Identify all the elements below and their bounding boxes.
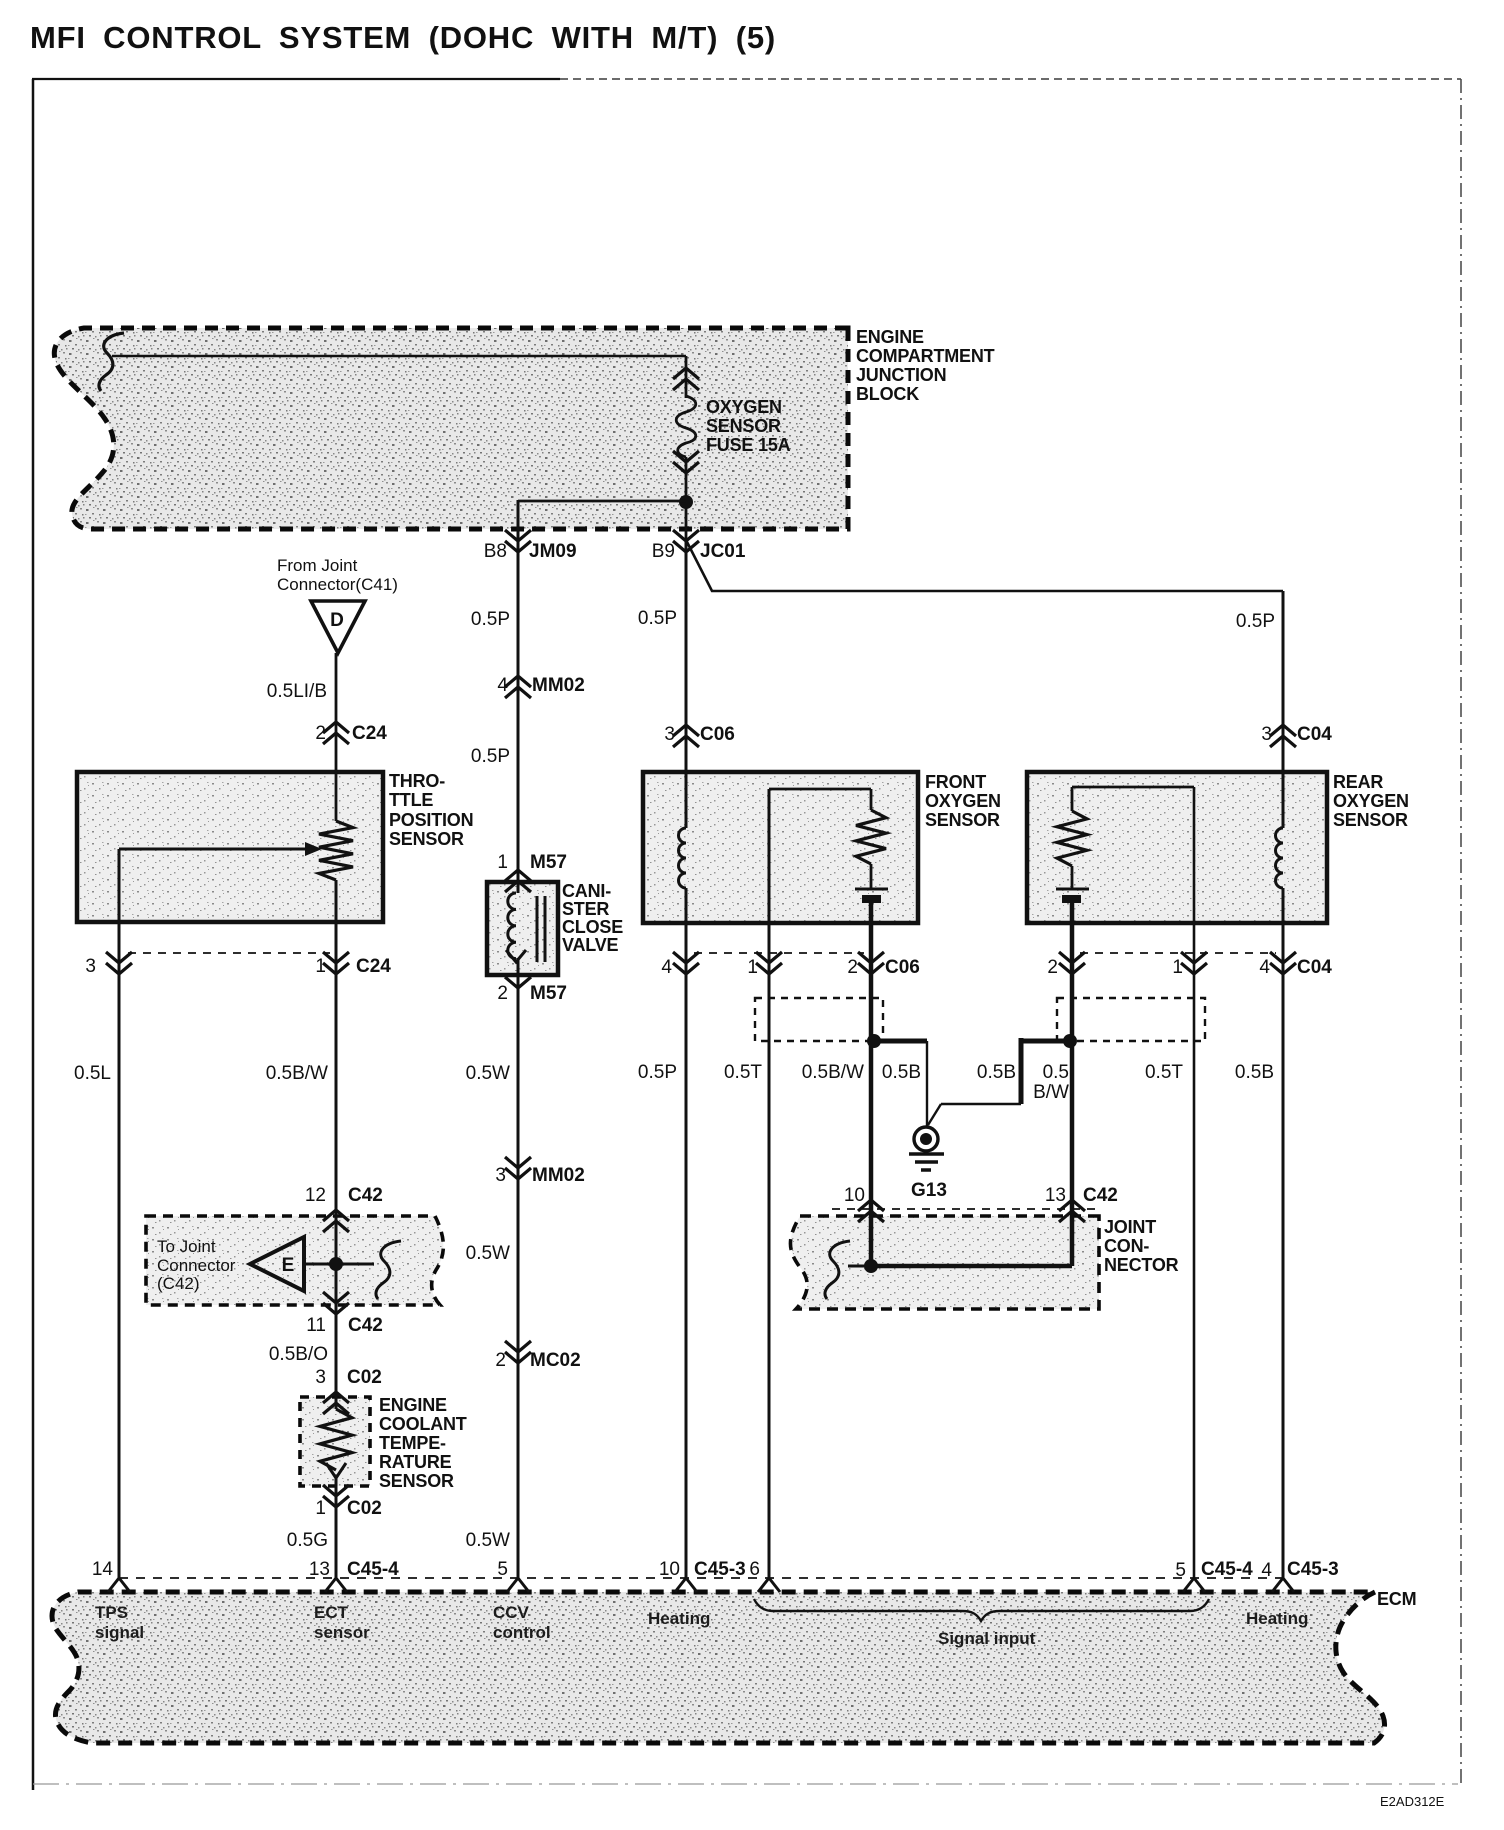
svg-text:2: 2 [497,983,508,1004]
svg-text:0.5G: 0.5G [287,1530,328,1551]
potentiometer resistor in TPS [319,821,353,880]
svg-text:0.5B/W: 0.5B/W [802,1062,864,1083]
wire 0.5B/W front O2 pin 2 to joint connector pin 10 [869,903,874,1266]
ECM label Heating left [648,1609,710,1628]
wire from fuse node to B8 [518,500,686,503]
wire label 0.5W (lower) [466,1243,510,1264]
front oxygen sensor box [643,772,918,923]
wire E to junction and through dashed box [304,1257,374,1271]
svg-text:C24: C24 [352,723,387,744]
svg-text:5: 5 [497,1559,508,1580]
joint connector internal bus [864,1259,1072,1273]
wire label 0.5W [466,1063,510,1084]
wire 0.5B rear O2 heater to ECM pin 4 [1282,888,1285,1578]
svg-text:C42: C42 [348,1315,383,1336]
svg-text:From Joint: From Joint [277,556,358,575]
svg-text:COMPARTMENT: COMPARTMENT [856,346,995,366]
label ENGINE COMPARTMENT JUNCTION BLOCK [856,327,995,404]
torn wire squiggle right of E junction [376,1241,401,1299]
svg-text:C45-3: C45-3 [1287,1559,1339,1580]
svg-text:ECT: ECT [314,1603,349,1622]
ECM label TPS signal [95,1603,144,1642]
canister valve plates [537,896,545,962]
wire label 0.5 B/W (rear O2) [1033,1062,1069,1103]
svg-text:0.5T: 0.5T [1145,1062,1183,1083]
svg-text:CON-: CON- [1104,1236,1149,1256]
wire label 0.5B/W (left) [266,1063,328,1084]
svg-text:FUSE 15A: FUSE 15A [706,435,791,455]
connector C42 pin 11 [306,1292,383,1336]
wire 0.5L TPS pin 3 to ECM pin 14 [118,922,121,1578]
svg-text:signal: signal [95,1623,144,1642]
svg-text:JM09: JM09 [529,541,577,562]
svg-text:B8: B8 [484,541,507,562]
svg-text:C45-3: C45-3 [694,1559,746,1580]
svg-text:STER: STER [562,899,609,919]
svg-text:0.5W: 0.5W [466,1530,510,1551]
svg-text:THRO-: THRO- [389,771,445,791]
svg-text:SENSOR: SENSOR [379,1471,454,1491]
signal input brace [754,1599,1209,1621]
connector C02 pin 3 [315,1367,381,1414]
wire 0.5P B9 JC01 down to front O2 and ECM pin 10 [685,540,688,1578]
wire label 0.5B (right ground branch) [977,1062,1016,1083]
connector C06 pin 2 [847,952,919,978]
svg-text:0.5B: 0.5B [977,1062,1016,1083]
ECM label CCV control [493,1603,551,1642]
svg-text:5: 5 [1175,1560,1186,1581]
svg-text:2: 2 [315,723,326,744]
document code [1380,1794,1445,1809]
connector C02 pin 1 [315,1485,381,1519]
ECM pin 5 (CCV control) [497,1559,529,1592]
label From Joint Connector(C41) [277,556,398,594]
svg-text:C02: C02 [347,1367,382,1388]
svg-text:ENGINE: ENGINE [856,327,924,347]
connector B8 JM09 [484,530,577,562]
wire branch JC01 to rear oxygen sensor [686,540,1283,828]
svg-text:2: 2 [495,1350,506,1371]
svg-text:C42: C42 [348,1185,383,1206]
front O2 heater coil [679,828,686,888]
svg-text:B/W: B/W [1033,1082,1069,1103]
ECM pin 10 C45-3 (heating) [659,1559,746,1592]
svg-text:0.5B/W: 0.5B/W [266,1063,328,1084]
svg-text:0.5P: 0.5P [471,746,510,767]
ECM connector dashed row [119,1577,1284,1579]
svg-text:MM02: MM02 [532,1165,585,1186]
svg-text:CANI-: CANI- [562,881,611,901]
triangle connector E [250,1237,304,1291]
wire label 0.5P (B8) [471,609,510,630]
svg-text:C06: C06 [885,957,920,978]
wire label 0.5G [287,1530,328,1551]
svg-text:3: 3 [315,1367,326,1388]
svg-text:10: 10 [844,1185,865,1206]
svg-text:0.5: 0.5 [1043,1062,1069,1083]
rear O2 sensing element (resistor + cell) [1056,787,1194,903]
svg-text:13: 13 [1045,1185,1066,1206]
svg-text:C04: C04 [1297,957,1332,978]
svg-text:C02: C02 [347,1498,382,1519]
connector M57 pin 2 [497,977,567,1004]
svg-text:To Joint: To Joint [157,1237,216,1256]
wire 0.5T front O2 pin 1 to ECM pin 6 [768,789,771,1578]
page title [30,20,776,55]
front O2 sensing element (resistor + cell) [769,789,888,903]
connector C04 pin 2 [1047,952,1085,978]
svg-text:TTLE: TTLE [389,790,433,810]
label CANISTER CLOSE VALVE [562,881,623,955]
svg-text:MC02: MC02 [530,1350,581,1371]
svg-text:0.5B/O: 0.5B/O [269,1344,328,1365]
wire label 0.5P below MM02 [471,746,510,767]
TPS wiper arrow [119,842,322,922]
svg-text:B9: B9 [652,541,675,562]
wire label 0.5W (to ECM) [466,1530,510,1551]
ground wires to G13 [874,1038,1070,1127]
joint connector dashed row [832,1208,1099,1210]
connector MC02 pin 2 [495,1341,580,1371]
label FRONT OXYGEN SENSOR [925,772,1001,830]
svg-text:CLOSE: CLOSE [562,917,623,937]
wire label 0.5P (B9) [638,608,677,629]
svg-text:REAR: REAR [1333,772,1383,792]
connector C06 pin 3 [664,724,734,747]
connector B9 JC01 [652,530,746,562]
ECM pin 13 C45-4 (ECT sensor) [309,1559,399,1592]
svg-text:C45-4: C45-4 [1201,1559,1253,1580]
rear oxygen sensor box [1027,772,1327,923]
C24 connector dashed row [128,952,330,954]
svg-text:3: 3 [1261,724,1272,745]
svg-text:SENSOR: SENSOR [389,829,464,849]
svg-text:VALVE: VALVE [562,935,619,955]
svg-text:11: 11 [306,1315,326,1336]
svg-text:Connector(C41): Connector(C41) [277,575,398,594]
C04 connector dashed row [1080,952,1276,954]
wire inside junction block to fuse [112,355,686,358]
svg-text:3: 3 [495,1165,506,1186]
fuse chevrons [673,368,699,473]
svg-text:G13: G13 [911,1180,947,1201]
svg-text:0.5L: 0.5L [74,1063,111,1084]
engine coolant temperature sensor box (dashed) [300,1397,370,1486]
svg-text:JOINT: JOINT [1104,1217,1156,1237]
svg-text:RATURE: RATURE [379,1452,452,1472]
connector C04 pin 4 [1259,952,1332,978]
shield dashed box left [755,998,883,1041]
svg-text:0.5P: 0.5P [471,609,510,630]
label ENGINE COOLANT TEMPERATURE SENSOR [379,1395,467,1491]
svg-text:POSITION: POSITION [389,810,473,830]
ground symbol G13 [909,1127,944,1170]
svg-text:OXYGEN: OXYGEN [1333,791,1409,811]
svg-text:TEMPE-: TEMPE- [379,1433,446,1453]
connector C42 pin 10 [844,1185,884,1222]
connector C42 pin 12 [305,1185,383,1232]
svg-text:ECM: ECM [1377,1589,1416,1609]
wire label 0.5P (rear O2 feed) [1236,611,1275,632]
triangle connector D (from C41) [311,601,365,653]
ECM box (dashed, halftone fill) [52,1592,1385,1743]
svg-text:M57: M57 [530,852,567,873]
svg-text:OXYGEN: OXYGEN [925,791,1001,811]
joint connector box (dashed) [790,1216,1099,1309]
svg-text:C24: C24 [356,956,391,977]
svg-text:C45-4: C45-4 [347,1559,399,1580]
wire label 0.5L [74,1063,111,1084]
ECM pin 14 (TPS signal) [92,1559,130,1592]
svg-text:14: 14 [92,1559,114,1580]
wire label 0.5B/W (front O2 heater gnd) [802,1062,864,1083]
ECM label Signal input [938,1629,1036,1648]
label To Joint Connector (C42) [157,1237,236,1293]
label REAR OXYGEN SENSOR [1333,772,1409,830]
wire label 0.5T (rear O2 signal) [1145,1062,1183,1083]
shield dashed box right [1057,998,1205,1041]
svg-text:COOLANT: COOLANT [379,1414,467,1434]
svg-text:ENGINE: ENGINE [379,1395,447,1415]
wire label 0.5B/O [269,1344,328,1365]
junction node below fuse [679,495,693,509]
svg-text:1: 1 [1172,957,1183,978]
svg-text:Signal input: Signal input [938,1629,1036,1648]
svg-text:C06: C06 [700,724,735,745]
svg-text:1: 1 [315,956,326,977]
connector C06 pin 4 [661,952,699,978]
canister valve coil [506,893,526,962]
svg-text:2: 2 [1047,957,1058,978]
label JOINT CONNECTOR [1104,1217,1179,1275]
svg-text:C04: C04 [1297,724,1332,745]
ECT thermistor [320,1409,352,1578]
svg-text:JUNCTION: JUNCTION [856,365,946,385]
wire label 0.5LI/B [267,681,327,702]
connector C24 pin 1 [315,952,391,977]
connector C24 pin 3 [85,952,132,977]
ECM label Heating right [1246,1609,1308,1628]
svg-text:10: 10 [659,1559,680,1580]
svg-text:SENSOR: SENSOR [1333,810,1408,830]
svg-text:0.5LI/B: 0.5LI/B [267,681,327,702]
svg-text:6: 6 [749,1559,760,1580]
wire 0.5T rear O2 pin 1 to ECM [1193,787,1196,1578]
svg-text:D: D [330,610,344,631]
rear O2 heater coil [1276,828,1283,888]
svg-text:2: 2 [847,957,858,978]
wire 0.5LI/B from D to C24 pin 2 [335,653,338,821]
svg-text:12: 12 [305,1185,326,1206]
wire label 0.5B (left ground branch) [882,1062,921,1083]
ECM pin 6 (signal input) [749,1559,780,1592]
dashed box To Joint Connector [146,1216,443,1305]
connector MM02 pin 4 [497,675,584,698]
svg-text:0.5W: 0.5W [466,1063,510,1084]
svg-text:FRONT: FRONT [925,772,986,792]
svg-text:0.5P: 0.5P [638,1062,677,1083]
connector C04 pin 1 [1172,952,1207,978]
svg-text:E2AD312E: E2AD312E [1380,1794,1445,1809]
torn wire squiggle at junction block feed [99,333,124,391]
svg-text:0.5P: 0.5P [638,608,677,629]
svg-text:BLOCK: BLOCK [856,384,919,404]
C06 connector dashed row [694,952,864,954]
svg-text:TPS: TPS [95,1603,128,1622]
connector C06 pin 1 [747,952,782,978]
svg-text:0.5P: 0.5P [1236,611,1275,632]
svg-text:13: 13 [309,1559,330,1580]
svg-text:0.5T: 0.5T [724,1062,762,1083]
ECM pin 4 C45-3 (heating right) [1261,1559,1338,1592]
wire label 0.5P (front O2 heater) [638,1062,677,1083]
svg-text:JC01: JC01 [700,541,746,562]
label G13 [911,1180,947,1201]
label ECM [1377,1589,1416,1609]
svg-text:4: 4 [661,957,672,978]
svg-text:1: 1 [747,957,758,978]
svg-text:(C42): (C42) [157,1274,200,1293]
wire label 0.5B (rear O2 heater) [1235,1062,1274,1083]
wire label 0.5T (front O2 signal) [724,1062,762,1083]
label OXYGEN SENSOR FUSE 15A [706,397,791,455]
svg-text:MFI CONTROL SYSTEM (DOHC WITH: MFI CONTROL SYSTEM (DOHC WITH M/T) (5) [30,20,776,55]
svg-text:control: control [493,1623,551,1642]
connector M57 pin 1 [497,852,567,892]
ground branch junction dot left [867,1034,881,1048]
wire 0.5P B8 JM09 chain down to ECM pin 5 [517,500,520,1578]
svg-text:4: 4 [1259,957,1270,978]
torn wire squiggle in joint connector [825,1241,871,1299]
svg-text:NECTOR: NECTOR [1104,1255,1179,1275]
svg-text:C42: C42 [1083,1185,1118,1206]
svg-text:sensor: sensor [314,1623,370,1642]
label THROTTLE POSITION SENSOR [389,771,473,849]
svg-text:4: 4 [497,675,508,696]
fuse OXYGEN SENSOR FUSE 15A [676,356,696,540]
connector C24 pin 2 [315,722,387,744]
ECM pin 5 C45-4 (signal input right) [1175,1559,1253,1592]
svg-text:Heating: Heating [648,1609,710,1628]
svg-text:1: 1 [315,1498,326,1519]
svg-text:SENSOR: SENSOR [925,810,1000,830]
svg-text:Connector: Connector [157,1256,236,1275]
wire 0.5B/W C24 pin 1 to ECT chain [335,880,338,1409]
svg-text:MM02: MM02 [532,675,585,696]
connector C04 pin 3 [1261,724,1332,747]
svg-text:0.5B: 0.5B [882,1062,921,1083]
svg-text:4: 4 [1261,1560,1272,1581]
connector C42 pin 13 [1045,1185,1118,1222]
svg-text:OXYGEN: OXYGEN [706,397,782,417]
svg-text:CCV: CCV [493,1603,530,1622]
svg-text:0.5B: 0.5B [1235,1062,1274,1083]
svg-text:1: 1 [497,852,508,873]
wire 0.5 B/W rear O2 pin 2 to joint connector pin 13 [1070,903,1075,1266]
throttle position sensor box [77,772,383,922]
svg-text:M57: M57 [530,983,567,1004]
svg-text:E: E [282,1255,295,1276]
svg-text:3: 3 [85,956,96,977]
svg-text:3: 3 [664,724,675,745]
connector MM02 pin 3 [495,1157,584,1186]
ECM label ECT sensor [314,1603,370,1642]
svg-text:0.5W: 0.5W [466,1243,510,1264]
canister close valve box [487,882,558,975]
engine compartment junction block (dashed box, halftone fill) [54,328,848,529]
svg-text:Heating: Heating [1246,1609,1308,1628]
svg-text:SENSOR: SENSOR [706,416,781,436]
ground branch junction dot right [1063,1034,1077,1048]
